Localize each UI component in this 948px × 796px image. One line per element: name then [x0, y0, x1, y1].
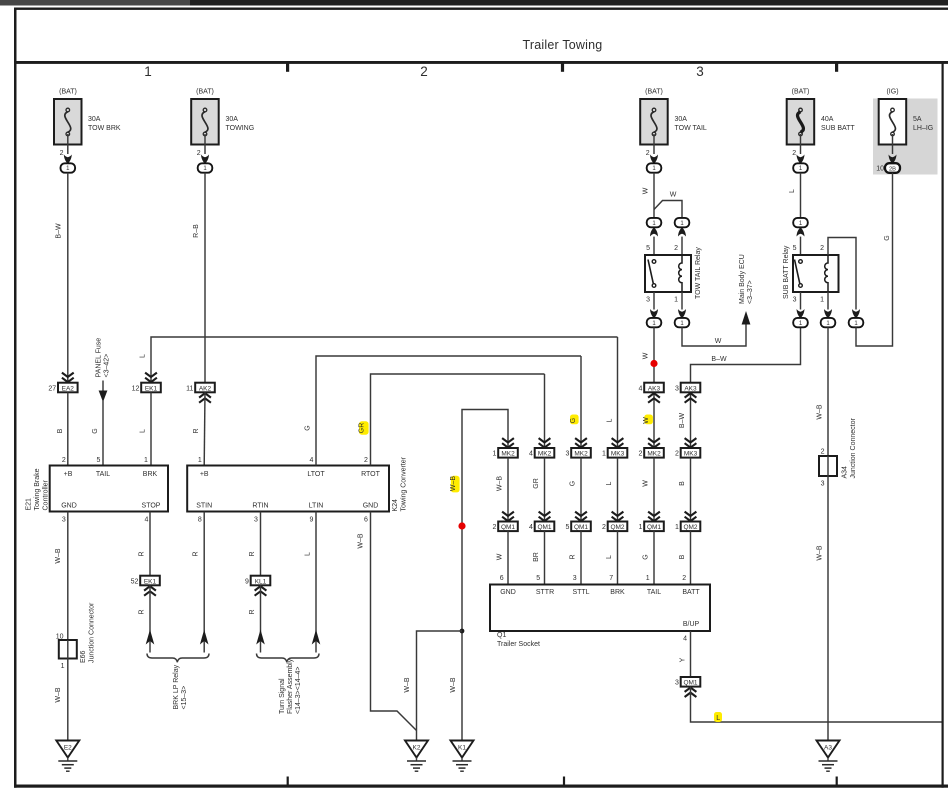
svg-text:W–B: W–B	[817, 404, 824, 420]
svg-text:MK3: MK3	[684, 451, 698, 458]
svg-text:+B: +B	[64, 471, 73, 478]
svg-text:R: R	[139, 609, 146, 614]
svg-text:K1: K1	[458, 745, 466, 752]
svg-text:2: 2	[674, 245, 678, 252]
ruler line	[14, 61, 948, 64]
red splice dot on W wire	[650, 360, 657, 367]
svg-text:3: 3	[565, 451, 569, 458]
chevron into EA2	[62, 373, 74, 383]
column 3 wire G with highlight	[570, 356, 587, 448]
svg-text:(BAT): (BAT)	[59, 89, 77, 96]
component K24 Towing Converter	[187, 456, 407, 523]
wire B to E21 +B	[57, 392, 68, 465]
svg-text:W: W	[670, 192, 677, 199]
svg-text:TOW TAIL Relay: TOW TAIL Relay	[695, 247, 702, 299]
svg-text:Junction Connector: Junction Connector	[89, 602, 96, 663]
svg-text:3: 3	[696, 64, 704, 79]
fusible link 40A connector oval 1	[793, 163, 808, 172]
connector EA2 pin 27	[48, 383, 77, 393]
chevron into EK1	[145, 373, 157, 383]
svg-text:2: 2	[682, 575, 686, 582]
svg-text:5: 5	[97, 457, 101, 464]
fusible link 40A SUB BATT	[787, 89, 856, 145]
junction connector A34	[819, 418, 857, 488]
wire R to Turn Signal arrow	[249, 585, 265, 652]
wire L to E21 BRK	[140, 392, 151, 465]
fuse 30A TOWING connector oval 1	[198, 163, 213, 172]
relay TOW TAIL Relay	[645, 247, 702, 299]
top dark bar right	[190, 0, 948, 6]
svg-text:W–B: W–B	[404, 677, 411, 693]
svg-text:9: 9	[310, 517, 314, 524]
svg-text:B: B	[679, 554, 686, 559]
svg-text:K2: K2	[413, 745, 421, 752]
wire W col1 to Q1 GND	[496, 531, 508, 584]
svg-text:2: 2	[602, 524, 606, 531]
SUB BATT pin 1 output	[820, 292, 832, 318]
svg-text:GND: GND	[363, 503, 379, 510]
svg-text:4: 4	[529, 451, 533, 458]
wire coil pin 2 loop to connector	[820, 238, 860, 319]
svg-text:W: W	[642, 480, 649, 487]
svg-text:2: 2	[638, 451, 642, 458]
svg-text:LTOT: LTOT	[307, 471, 325, 478]
svg-text:MK2: MK2	[501, 451, 515, 458]
svg-text:K24: K24	[392, 499, 399, 512]
svg-text:MK3: MK3	[611, 451, 625, 458]
svg-text:3: 3	[675, 680, 679, 687]
svg-text:(BAT): (BAT)	[196, 89, 214, 96]
fuse 30A TOW TAIL connector oval 1	[647, 163, 662, 172]
svg-text:G: G	[570, 418, 577, 423]
wire L fuse4 to SUB BATT relay	[789, 173, 801, 218]
connector oval 1 below TOW TAIL pin 3	[647, 318, 662, 327]
svg-text:2: 2	[646, 150, 650, 157]
svg-text:30A: 30A	[675, 116, 688, 123]
wire R-B fuse2 to AK2	[193, 173, 205, 383]
svg-text:W: W	[642, 352, 649, 359]
svg-text:Flasher Assembly: Flasher Assembly	[287, 658, 294, 714]
connector AK3 pin 3	[675, 383, 700, 393]
svg-text:Main Body ECU: Main Body ECU	[739, 254, 746, 304]
svg-text:3: 3	[793, 297, 797, 304]
column 3 chevron into QM1	[575, 512, 587, 521]
svg-text:W–B: W–B	[55, 548, 62, 564]
TOW TAIL pin 1 output	[674, 292, 686, 318]
chevron into EK1 52	[144, 586, 156, 596]
connector MK3 pin 1 col4	[602, 448, 627, 458]
svg-text:MK2: MK2	[574, 451, 588, 458]
svg-text:5: 5	[646, 245, 650, 252]
connector oval 1 below SUB BATT pin 1	[821, 318, 836, 327]
left border	[14, 8, 17, 788]
fuse 30A TOW BRK pin 2 wire	[60, 134, 72, 164]
svg-text:RTOT: RTOT	[361, 471, 381, 478]
svg-text:R–B: R–B	[193, 224, 200, 238]
svg-text:Junction Connector: Junction Connector	[850, 418, 857, 479]
svg-text:W–B: W–B	[358, 533, 365, 549]
column 2 chevron into MK2	[539, 374, 551, 448]
svg-text:2: 2	[62, 457, 66, 464]
svg-text:3: 3	[821, 481, 825, 488]
connector MK2 pin 1 col1	[492, 448, 517, 458]
svg-text:SUB BATT Relay: SUB BATT Relay	[783, 245, 790, 299]
svg-text:1: 1	[144, 457, 148, 464]
fusible link 40A pin 2 wire	[792, 134, 804, 164]
ground A3	[817, 741, 840, 772]
svg-text:6: 6	[364, 517, 368, 524]
wire R to BRK LP relay arrow	[139, 585, 155, 652]
connector MK2 pin 2 col5	[638, 448, 663, 458]
connector oval 1 below TOW TAIL pin 1	[675, 318, 690, 327]
connector EK1 pin 12	[132, 383, 161, 393]
wire BR col2 to Q1 STTR	[533, 531, 545, 584]
svg-text:Turn Signal: Turn Signal	[279, 678, 286, 714]
svg-text:6: 6	[500, 575, 504, 582]
svg-text:Y: Y	[680, 657, 687, 662]
wire B col6	[679, 458, 691, 522]
svg-text:4: 4	[145, 517, 149, 524]
wire W-B col1	[496, 458, 508, 522]
svg-text:L: L	[606, 418, 613, 422]
fuse 30A TOWING pin 2 wire	[197, 134, 209, 164]
svg-text:B/UP: B/UP	[683, 621, 700, 628]
svg-text:G: G	[642, 554, 649, 559]
svg-text:W: W	[496, 553, 503, 560]
svg-text:E21: E21	[26, 498, 33, 511]
svg-text:2: 2	[821, 449, 825, 456]
svg-text:1: 1	[674, 297, 678, 304]
svg-text:(BAT): (BAT)	[645, 89, 663, 96]
svg-text:STOP: STOP	[142, 503, 161, 510]
PANEL Fuse reference label	[96, 338, 111, 378]
svg-text:+B: +B	[200, 471, 209, 478]
svg-text:1: 1	[144, 64, 152, 79]
wire G col3	[569, 458, 581, 522]
svg-text:STTL: STTL	[572, 589, 589, 596]
red splice dot on W-B trunk	[458, 522, 465, 529]
column 6 wire B-W	[679, 392, 696, 448]
svg-text:1: 1	[198, 457, 202, 464]
svg-text:A34: A34	[842, 466, 849, 479]
svg-text:10: 10	[876, 166, 884, 173]
svg-text:R: R	[139, 551, 146, 556]
bottom tick c	[836, 777, 838, 786]
ground K2	[405, 741, 428, 772]
svg-text:STIN: STIN	[196, 503, 212, 510]
svg-text:B–W: B–W	[711, 356, 727, 363]
svg-text:G: G	[92, 428, 99, 433]
svg-text:W–B: W–B	[817, 545, 824, 561]
PANEL fuse feed arrow	[99, 381, 108, 403]
svg-text:G: G	[884, 235, 891, 240]
svg-text:KL1: KL1	[255, 578, 267, 585]
svg-text:2: 2	[197, 150, 201, 157]
svg-text:QM1: QM1	[647, 524, 661, 531]
wire W-B from K24 GND to ground K2	[358, 512, 417, 731]
svg-text:L: L	[139, 354, 146, 358]
wire B-W fuse1 to EA2	[56, 173, 68, 383]
svg-text:TOW BRK: TOW BRK	[88, 125, 121, 132]
svg-text:AK3: AK3	[684, 385, 697, 392]
svg-text:5A: 5A	[913, 116, 922, 123]
svg-text:52: 52	[131, 578, 139, 585]
wire L horizontal from BRK column to MK3 column	[151, 337, 618, 383]
brace BRK LP Relay	[147, 654, 209, 710]
connector KL1 pin 9	[245, 576, 270, 586]
wire GR from K24 RTOT to column 2	[359, 374, 545, 466]
wire R from K24 RTIN to KL1	[249, 512, 261, 576]
svg-text:<15–3>: <15–3>	[181, 686, 188, 710]
fuse 30A TOW TAIL pin 2 wire	[646, 134, 658, 164]
svg-text:1: 1	[820, 297, 824, 304]
wire R from K24 STIN to BRK LP relay arrow	[193, 512, 209, 653]
svg-text:7: 7	[609, 575, 613, 582]
svg-text:4: 4	[638, 385, 642, 392]
svg-text:PANEL Fuse: PANEL Fuse	[96, 338, 103, 378]
wire W-B from SUB BATT pin 1 to A34	[817, 327, 829, 456]
ruler tick a	[286, 64, 289, 72]
column 5 chevron into QM1	[648, 512, 660, 521]
bottom tick a	[287, 777, 289, 786]
svg-text:1: 1	[675, 524, 679, 531]
bottom border	[14, 785, 948, 788]
svg-text:BRK: BRK	[610, 589, 625, 596]
svg-text:B–W: B–W	[679, 413, 686, 429]
svg-text:W: W	[643, 187, 650, 194]
svg-text:Towing Converter: Towing Converter	[401, 456, 408, 511]
ground K1	[451, 741, 474, 772]
svg-text:<3–42>: <3–42>	[104, 354, 111, 378]
svg-text:Trailer Towing: Trailer Towing	[523, 38, 603, 52]
svg-text:Q1: Q1	[497, 632, 506, 639]
svg-text:AK2: AK2	[199, 385, 212, 392]
connector QM2 pin 2 col4	[602, 522, 627, 532]
svg-text:2: 2	[420, 64, 428, 79]
svg-text:SUB BATT: SUB BATT	[821, 125, 855, 132]
branch wire W to relay pin 2	[654, 192, 682, 219]
svg-text:W–B: W–B	[55, 687, 62, 703]
wire W col5	[642, 458, 654, 522]
right border	[942, 61, 944, 788]
svg-text:3: 3	[254, 517, 258, 524]
fuse 5A pin 10 wire	[876, 134, 896, 173]
bottom tick b	[563, 777, 565, 786]
svg-text:BATT: BATT	[682, 589, 700, 596]
svg-text:L: L	[606, 555, 613, 559]
wire W-B from A34 to ground A3	[817, 476, 829, 741]
svg-text:W–B: W–B	[450, 476, 457, 492]
svg-text:R: R	[193, 428, 200, 433]
top dark bar left	[0, 0, 190, 6]
svg-text:R: R	[193, 551, 200, 556]
SUB BATT pin 3 output	[793, 292, 805, 318]
connector oval 1 above SUB BATT pin 5	[793, 218, 808, 255]
svg-text:W: W	[715, 338, 722, 345]
connector oval 1 above TOW TAIL pin 2	[674, 218, 689, 255]
component Q1 Trailer Socket	[490, 585, 710, 649]
svg-text:1: 1	[492, 451, 496, 458]
wire G from oval to 2B junction	[856, 173, 893, 346]
svg-text:<14–3><14–4>: <14–3><14–4>	[295, 667, 302, 715]
svg-text:W: W	[643, 417, 650, 424]
chevron into AK3 pin 4	[648, 393, 660, 403]
svg-text:9: 9	[245, 578, 249, 585]
connector QM1 pin 5 col3	[565, 522, 590, 532]
wire W-B from E21 GND to E66	[55, 512, 68, 641]
svg-text:TAIL: TAIL	[96, 471, 110, 478]
svg-text:4: 4	[310, 457, 314, 464]
wire G col5 to Q1 TAIL	[642, 531, 654, 584]
svg-text:40A: 40A	[821, 116, 834, 123]
chevron into AK2	[199, 393, 211, 403]
fuse 30A TOW BRK	[54, 89, 121, 145]
svg-text:Trailer Socket: Trailer Socket	[497, 641, 540, 648]
column 2 chevron into QM1	[539, 512, 551, 521]
svg-text:QM1: QM1	[501, 524, 515, 531]
wire L col4 to Q1 BRK	[606, 531, 618, 584]
svg-text:3: 3	[646, 297, 650, 304]
svg-text:R: R	[569, 554, 576, 559]
svg-text:GND: GND	[61, 503, 77, 510]
svg-text:B: B	[57, 428, 64, 433]
arrow to Main Body ECU	[739, 254, 754, 324]
connector oval 1 below SUB BATT pin 3	[793, 318, 808, 327]
svg-text:L: L	[140, 429, 147, 433]
svg-text:(BAT): (BAT)	[792, 89, 810, 96]
gray highlight behind 5A LH-IG fuse	[873, 99, 938, 175]
connector oval 1 above TOW TAIL pin 5	[646, 218, 661, 255]
svg-text:12: 12	[132, 385, 140, 392]
fuse 30A TOW BRK connector oval 1	[61, 163, 76, 172]
column 4 wire L	[606, 337, 623, 448]
component E21 Towing Brake Controller	[26, 457, 169, 524]
svg-text:E66: E66	[80, 650, 87, 663]
svg-text:QM2: QM2	[610, 524, 624, 531]
fuse 30A TOWING	[191, 89, 254, 145]
connector QM1 pin 3	[675, 677, 700, 687]
svg-text:R: R	[249, 551, 256, 556]
wire L from K24 LTIN to Turn Signal arrow	[305, 512, 321, 653]
TOW TAIL pin 3 output	[646, 292, 658, 318]
connector EK1 pin 52	[131, 576, 160, 586]
svg-text:<3–37>: <3–37>	[747, 280, 754, 304]
svg-text:Controller: Controller	[43, 479, 50, 510]
junction connector E66	[59, 602, 96, 670]
svg-text:2B: 2B	[889, 166, 896, 172]
svg-text:GND: GND	[500, 589, 516, 596]
wire L col4	[606, 458, 618, 522]
svg-text:5: 5	[565, 524, 569, 531]
fuse 5A LH-IG	[879, 89, 934, 145]
svg-text:4: 4	[529, 524, 533, 531]
svg-text:B–W: B–W	[56, 223, 63, 239]
svg-text:2: 2	[675, 451, 679, 458]
connector QM1 pin 1 col5	[638, 522, 663, 532]
wire L from QM1 to right edge	[691, 687, 942, 722]
wire R from E21 STOP to EK1	[139, 512, 151, 576]
svg-text:TOWING: TOWING	[226, 125, 255, 132]
top border	[14, 8, 948, 10]
svg-text:EK1: EK1	[145, 385, 158, 392]
svg-text:E2: E2	[64, 745, 72, 752]
svg-text:2: 2	[792, 150, 796, 157]
svg-text:2: 2	[492, 524, 496, 531]
connector AK3 pin 4	[638, 383, 663, 393]
wire GR col2	[533, 458, 545, 522]
svg-text:TOW TAIL: TOW TAIL	[675, 125, 707, 132]
svg-text:AK3: AK3	[648, 385, 661, 392]
svg-text:11: 11	[186, 385, 193, 392]
svg-text:LH–IG: LH–IG	[913, 125, 933, 132]
svg-text:QM1: QM1	[537, 524, 551, 531]
wire G from K24 LTOT to column 3	[304, 356, 581, 466]
brace Turn Signal Flasher Assembly	[257, 654, 320, 715]
svg-text:EA2: EA2	[62, 385, 75, 392]
wire W-B trunk to ground K1	[450, 410, 508, 741]
connector QM1 pin 2 col1	[492, 522, 517, 532]
svg-text:MK2: MK2	[538, 451, 552, 458]
svg-text:EK1: EK1	[144, 578, 157, 585]
svg-text:3: 3	[62, 517, 66, 524]
connector MK2 pin 4 col2	[529, 448, 554, 458]
wire W from TOW TAIL pin 3 to AK3	[642, 327, 654, 383]
svg-text:8: 8	[198, 517, 202, 524]
svg-text:W–B: W–B	[450, 677, 457, 693]
svg-text:BRK LP Relay: BRK LP Relay	[173, 664, 180, 709]
connector QM1 pin 4 col2	[529, 522, 554, 532]
fuse 30A TOW TAIL	[640, 89, 707, 145]
svg-text:QM1: QM1	[574, 524, 588, 531]
svg-text:RTIN: RTIN	[252, 503, 268, 510]
svg-text:G: G	[569, 481, 576, 486]
svg-text:30A: 30A	[88, 116, 101, 123]
connector AK2 pin 11	[186, 383, 215, 393]
svg-text:L: L	[606, 481, 613, 485]
wire W from TOW TAIL pin 1 to Main Body ECU	[682, 324, 746, 346]
svg-text:R: R	[249, 609, 256, 614]
wire W-B from E66 to ground E2	[55, 659, 68, 741]
chevron into QM1 pin 3	[685, 688, 697, 698]
svg-text:QM1: QM1	[683, 680, 697, 687]
svg-text:27: 27	[48, 385, 56, 392]
svg-text:MK2: MK2	[647, 451, 661, 458]
wire Y from Q1 B/UP to QM1	[680, 631, 691, 677]
column 6 chevron into QM2	[685, 512, 697, 521]
connector QM2 pin 1 col6	[675, 522, 700, 532]
chevron into KL1	[255, 586, 267, 596]
wire W-B branch to ground K2	[404, 631, 462, 741]
junction connector oval 2B	[885, 163, 900, 173]
svg-text:TAIL: TAIL	[647, 589, 661, 596]
svg-text:L: L	[716, 715, 720, 722]
wire W fuse3 down with branch	[643, 173, 655, 218]
svg-text:L: L	[789, 189, 796, 193]
svg-text:1: 1	[646, 575, 650, 582]
svg-text:1: 1	[602, 451, 606, 458]
svg-text:G: G	[304, 425, 311, 430]
wire G to E21 TAIL	[92, 400, 103, 466]
svg-text:QM2: QM2	[683, 524, 697, 531]
wire R col3 to Q1 STTL	[569, 531, 581, 584]
connector oval 1 on coil feed	[849, 318, 864, 327]
svg-text:B: B	[679, 481, 686, 486]
svg-text:30A: 30A	[226, 116, 239, 123]
svg-text:3: 3	[675, 385, 679, 392]
svg-text:3: 3	[573, 575, 577, 582]
ruler tick c	[835, 64, 838, 72]
svg-text:5: 5	[793, 245, 797, 252]
